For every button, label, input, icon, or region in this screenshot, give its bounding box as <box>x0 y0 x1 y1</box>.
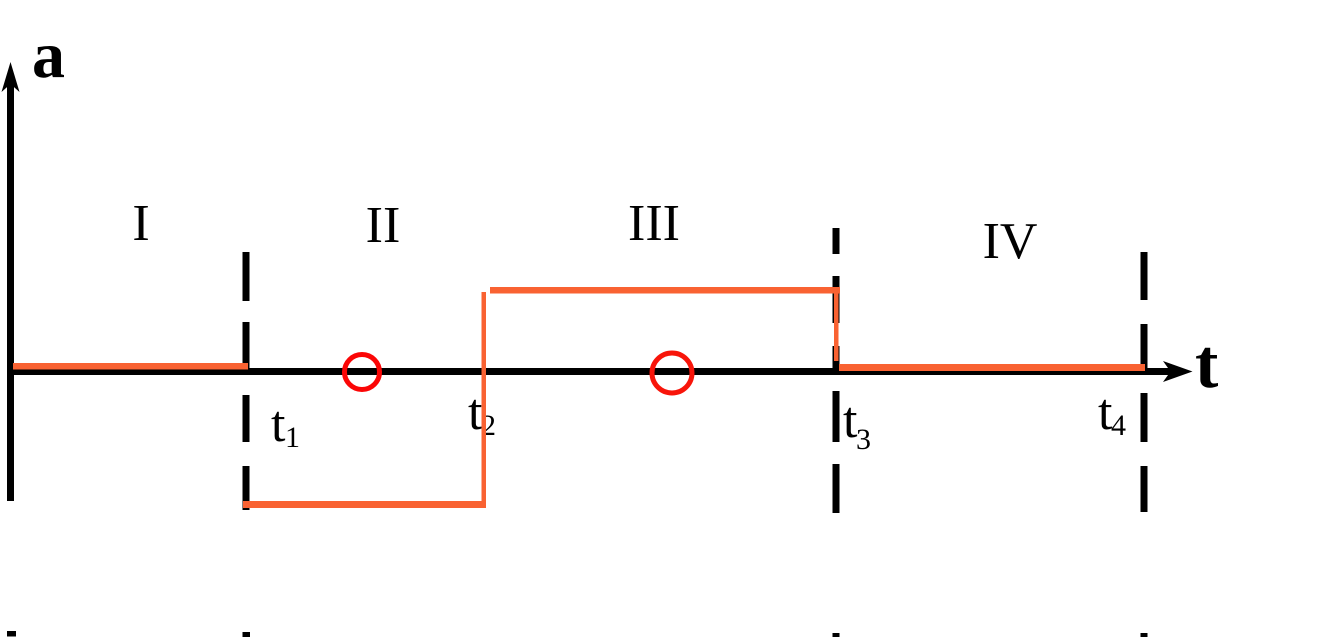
orange step segment III (above axis) <box>490 287 840 294</box>
y-axis bottom dash fragment <box>7 631 16 637</box>
svg-text:a: a <box>32 19 65 92</box>
orange step segment I <box>13 363 248 370</box>
svg-text:t: t <box>1195 326 1218 403</box>
x-axis arrowhead <box>1163 361 1193 382</box>
x-axis (t) shaft <box>7 368 1171 375</box>
svg-text:1: 1 <box>285 421 300 454</box>
red open circle in region II <box>345 355 380 390</box>
svg-text:III: III <box>628 195 680 252</box>
orange riser at t3 <box>834 293 839 361</box>
dashed line t3 <box>833 228 840 637</box>
dashed line t1 <box>243 252 251 637</box>
y-axis arrowhead <box>2 62 20 92</box>
svg-text:II: II <box>366 197 401 254</box>
orange riser at t2 <box>482 292 487 508</box>
svg-text:3: 3 <box>856 423 871 456</box>
dashed line t4 <box>1141 252 1148 637</box>
orange step segment IV <box>839 364 1145 371</box>
svg-text:IV: IV <box>983 213 1038 270</box>
red open circle in region III <box>652 353 692 393</box>
svg-text:4: 4 <box>1111 409 1126 442</box>
y-axis (a) shaft <box>7 84 14 501</box>
orange step segment II (below axis) <box>243 501 486 508</box>
svg-text:I: I <box>132 195 149 252</box>
svg-text:t: t <box>271 396 286 453</box>
